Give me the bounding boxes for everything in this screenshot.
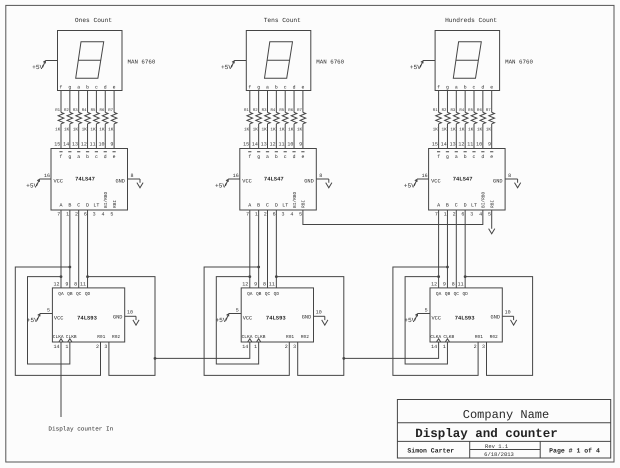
svg-text:Hundreds Count: Hundreds Count — [445, 17, 497, 24]
svg-text:Company Name: Company Name — [463, 408, 549, 422]
svg-text:6/18/2013: 6/18/2013 — [484, 451, 514, 458]
svg-text:Page # 1 of 4: Page # 1 of 4 — [549, 448, 600, 455]
svg-text:Simon Carter: Simon Carter — [407, 448, 454, 455]
svg-text:Display counter In: Display counter In — [48, 426, 113, 433]
svg-text:Ones Count: Ones Count — [75, 17, 112, 24]
svg-text:Display and counter: Display and counter — [415, 427, 558, 441]
svg-text:Tens Count: Tens Count — [264, 17, 301, 24]
svg-text:Rev 1.1: Rev 1.1 — [485, 443, 509, 450]
